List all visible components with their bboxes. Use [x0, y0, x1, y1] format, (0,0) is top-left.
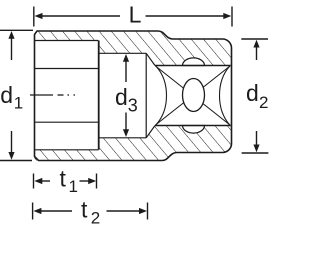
svg-text:t: t [81, 197, 88, 223]
svg-text:2: 2 [259, 93, 268, 112]
svg-text:1: 1 [14, 94, 23, 113]
svg-text:1: 1 [69, 177, 78, 196]
svg-text:d: d [115, 84, 128, 110]
svg-text:3: 3 [128, 96, 138, 116]
svg-text:d: d [246, 80, 259, 106]
svg-text:2: 2 [91, 209, 100, 228]
svg-text:d: d [0, 82, 13, 108]
svg-text:t: t [60, 166, 67, 192]
svg-text:L: L [129, 2, 142, 28]
